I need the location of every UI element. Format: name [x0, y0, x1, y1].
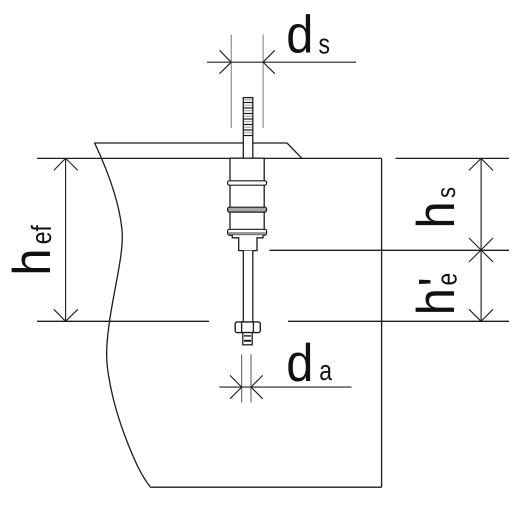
sleeve collar ring 2 (gray)	[228, 207, 267, 212]
anchor cone / stepped sleeve end	[232, 235, 263, 251]
extension line h_ef bottom (left segment)	[37, 320, 209, 322]
fixture plate chamfered right corner	[287, 143, 302, 158]
dimension line h_ef with arrowheads	[54, 158, 78, 321]
svg-text:h: h	[407, 288, 466, 315]
sleeve collar ring 1	[228, 181, 267, 185]
dimension line h_s / h'e with arrowheads	[469, 158, 493, 321]
label h_ef (rotated)	[3, 225, 62, 276]
anchor expansion sleeve body	[230, 158, 264, 235]
dimension line d_a with inward arrowheads	[219, 375, 351, 398]
sleeve collar ring 3 with gray band	[228, 229, 267, 235]
extension line h'e top (right middle)	[270, 249, 510, 251]
concrete break line (wavy left edge)	[94, 143, 150, 488]
svg-text:h: h	[3, 248, 62, 275]
svg-text:d: d	[286, 334, 313, 393]
concrete top surface edge (also h_ef / h_s top extension line)	[37, 157, 509, 159]
extension line h'e bottom (right segment)	[288, 320, 509, 322]
concrete bottom edge	[151, 486, 382, 488]
extension lines d_s (sleeve diameter)	[231, 35, 263, 129]
label d_a	[286, 334, 332, 393]
hex nut at bolt end	[235, 322, 260, 333]
svg-text:s: s	[431, 187, 461, 198]
label d_s	[286, 5, 330, 64]
anchor bolt shaft (lower rod)	[243, 251, 253, 322]
anchor threaded rod top section with thread rings	[243, 97, 253, 159]
threaded stub below nut	[243, 333, 252, 345]
svg-text:': '	[409, 277, 468, 286]
svg-text:s: s	[319, 28, 330, 59]
concrete right edge	[381, 158, 383, 487]
fixture plate top edge	[94, 142, 287, 144]
svg-text:ef: ef	[26, 225, 57, 244]
svg-text:a: a	[319, 355, 332, 386]
label h'_e (rotated)	[407, 273, 468, 316]
svg-text:d: d	[286, 5, 313, 64]
label h_s (rotated)	[407, 187, 466, 229]
extension lines d_a (bolt diameter)	[242, 354, 251, 402]
dimension line d_s with inward arrowheads	[207, 50, 356, 73]
svg-text:h: h	[407, 201, 466, 228]
